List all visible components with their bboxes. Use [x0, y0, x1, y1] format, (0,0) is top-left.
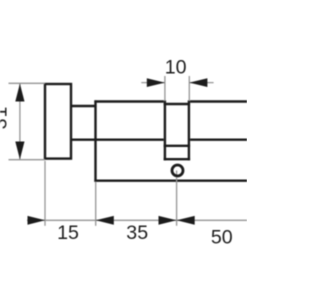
arrow 50 left — [177, 216, 195, 225]
extension line bottom at knob left — [44, 161, 46, 226]
arrow 15 left outside — [28, 216, 46, 225]
extension line bottom at body left — [95, 182, 97, 226]
dimension line 31 — [19, 83, 21, 159]
dimension line 10 left segment — [141, 82, 164, 84]
cam top edge — [164, 103, 190, 105]
svg-text:35: 35 — [126, 222, 148, 244]
cam right edge — [188, 100, 190, 160]
arrow 10 right — [189, 78, 207, 87]
svg-text:31: 31 — [0, 106, 12, 130]
dimension line 10 right segment — [190, 82, 214, 84]
extension line 31 top — [9, 82, 46, 84]
cylinder body left edge — [94, 100, 96, 181]
extension line bottom at screw hole — [176, 171, 178, 226]
arrow 31 up — [15, 84, 24, 102]
extension line 10 right — [188, 76, 190, 101]
neck top line — [72, 105, 97, 107]
extension line 31 bottom — [9, 159, 46, 161]
cylinder body bottom line — [94, 179, 247, 181]
arrow 35 left — [96, 216, 114, 225]
arrow 31 down — [15, 142, 24, 160]
arrow 35 right — [159, 216, 177, 225]
svg-text:50: 50 — [211, 226, 233, 248]
dimension line bottom — [27, 219, 247, 221]
cam bottom edge — [164, 158, 190, 160]
arrow 10 left — [147, 78, 165, 87]
extension line 10 left — [164, 76, 166, 101]
svg-text:10: 10 — [165, 57, 187, 79]
cam left edge — [164, 100, 166, 160]
cam inner line — [164, 145, 190, 147]
cylinder body top line — [94, 100, 247, 102]
svg-text:15: 15 — [57, 222, 79, 244]
thumbturn knob — [45, 84, 71, 159]
cylinder body middle line — [72, 138, 248, 140]
screw hole circle — [172, 165, 183, 176]
